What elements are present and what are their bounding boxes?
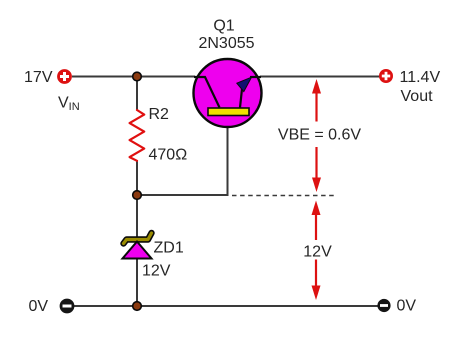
wire left branch middle: resistor to zener [136, 160, 138, 240]
junction node bottom (ZD1 / ground) [133, 302, 142, 311]
svg-text:0V: 0V [29, 298, 49, 315]
transistor Q1 emitter line [240, 89, 242, 108]
svg-text:0V: 0V [397, 298, 417, 315]
terminal 0V left [60, 299, 75, 314]
svg-text:VBE = 0.6V: VBE = 0.6V [278, 127, 361, 144]
junction node middle (R2 / base / ZD1) [133, 191, 142, 200]
wire left branch top: node to resistor [136, 77, 138, 111]
wire bottom ground rail [74, 305, 378, 307]
svg-text:R2: R2 [149, 106, 170, 123]
wire top rail left: Vin terminal to transistor [72, 76, 195, 78]
svg-text:12V: 12V [303, 244, 332, 261]
arrow 12V lower [312, 260, 321, 301]
svg-text:2N3055: 2N3055 [198, 35, 254, 52]
terminal +17V input [57, 69, 72, 84]
dashed reference line [232, 195, 337, 197]
transistor Q1 emitter wire stub to edge [250, 76, 261, 78]
svg-text:12V: 12V [142, 263, 171, 280]
terminal +11.4V output [379, 69, 393, 83]
wire base lead vertical from transistor [137, 115, 228, 195]
junction node top (Vin / R2) [133, 72, 142, 81]
wire left branch bottom: zener to ground rail [136, 258, 138, 306]
resistor R2 zigzag [130, 110, 145, 161]
arrow VBE upper [312, 79, 321, 122]
svg-text:Vout: Vout [401, 88, 434, 105]
arrow 12V upper [312, 201, 321, 241]
arrow VBE lower [312, 147, 321, 192]
zener ZD1 anode triangle [123, 242, 152, 259]
transistor Q1 body [194, 59, 262, 127]
terminal 0V right [377, 299, 390, 312]
svg-text:11.4V: 11.4V [400, 69, 441, 86]
transistor Q1 emitter arrowhead [237, 77, 252, 91]
svg-text:ZD1: ZD1 [154, 240, 184, 257]
svg-text:Q1: Q1 [213, 18, 234, 35]
transistor Q1 collector line [194, 77, 220, 108]
transistor Q1 base bar [208, 108, 249, 116]
wire top rail right: transistor to Vout terminal [260, 76, 380, 78]
svg-text:17V: 17V [24, 69, 53, 86]
zener ZD1 cathode bar [124, 233, 152, 244]
svg-text:470Ω: 470Ω [149, 147, 188, 164]
